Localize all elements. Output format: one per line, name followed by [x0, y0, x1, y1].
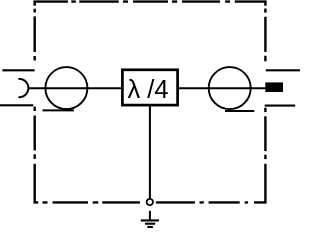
wire: node to ground symbol: [149, 211, 151, 220]
bulkhead wall line bottom left: [0, 104, 33, 106]
enclosure boundary top (dash-dot): [33, 0, 266, 2]
output pin (solid terminal): [265, 82, 283, 92]
enclosure boundary left lower (dash-dot): [34, 107, 36, 202]
bulkhead wall line top left: [2, 69, 34, 71]
ground symbol bar 3: [147, 226, 153, 228]
enclosure boundary right lower (dash-dot): [264, 108, 266, 202]
right connector shield tangent: [225, 110, 254, 112]
right connector circle: [209, 67, 251, 109]
enclosure boundary bottom left of node (dash-dot): [34, 201, 140, 203]
enclosure boundary left upper (dash-dot): [34, 1, 36, 60]
wire: box down to ground node: [149, 105, 151, 198]
bulkhead wall line top right: [266, 69, 300, 71]
enclosure boundary bottom right of node (dash-dot): [156, 201, 267, 203]
enclosure boundary right upper (dash-dot): [264, 1, 266, 61]
ground symbol bar 2: [145, 223, 155, 225]
bulkhead wall line bottom right: [265, 105, 296, 107]
ground node on enclosure: [147, 199, 153, 205]
ground symbol bar 1: [141, 219, 159, 221]
left connector shield tangent: [43, 109, 75, 111]
wire: main signal line from socket to output pin: [28, 87, 266, 89]
svg-text:λ /4: λ /4: [127, 76, 168, 104]
quarter-wave stub box: [122, 70, 177, 105]
input coax socket arc: [19, 79, 28, 97]
left connector circle: [45, 67, 87, 109]
